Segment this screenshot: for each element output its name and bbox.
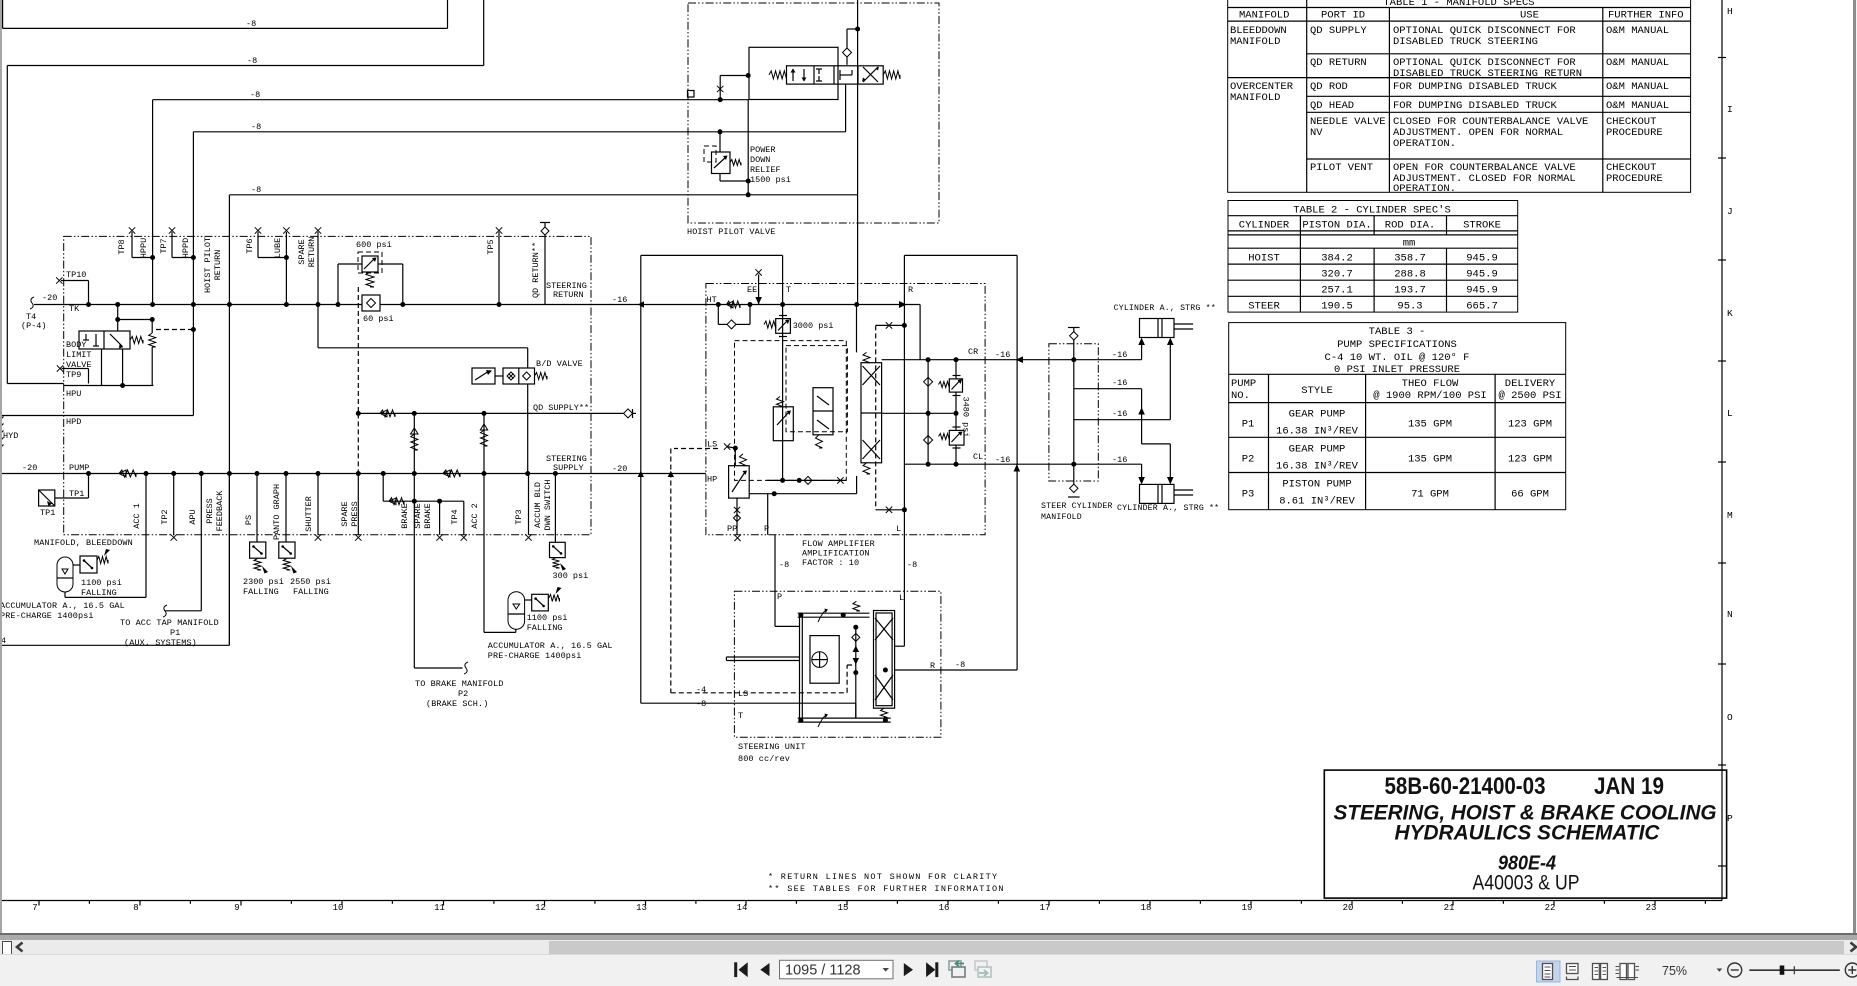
svg-text:-8: -8	[247, 56, 257, 66]
svg-text:1100 psi: 1100 psi	[81, 578, 122, 588]
net label SPARE RETURN wire	[315, 227, 321, 233]
svg-text:QD ROD: QD ROD	[1310, 81, 1348, 93]
svg-text:1100 psi: 1100 psi	[527, 613, 568, 623]
svg-text:193.7: 193.7	[1394, 285, 1426, 297]
svg-text:TO ACC TAP MANIFOLD: TO ACC TAP MANIFOLD	[120, 618, 219, 628]
svg-text:SUPPLY: SUPPLY	[553, 463, 584, 473]
svg-text:PUMP: PUMP	[69, 463, 89, 473]
svg-text:1095 / 1128: 1095 / 1128	[785, 962, 861, 978]
svg-text:66 GPM: 66 GPM	[1511, 489, 1549, 501]
pressure switch on accumulator A2	[525, 599, 532, 601]
svg-text:R: R	[930, 661, 935, 671]
svg-text:P3: P3	[1242, 489, 1255, 501]
svg-text:TP10: TP10	[66, 270, 86, 280]
svg-text:PILOT VENT: PILOT VENT	[1310, 162, 1373, 174]
svg-text:TABLE 1 - MANIFOLD SPECS: TABLE 1 - MANIFOLD SPECS	[1383, 0, 1534, 9]
svg-text:R: R	[908, 285, 913, 295]
steering unit pressure bus top	[798, 612, 870, 614]
wire TK steering return -16	[30, 297, 34, 309]
wire QD SUPPLY	[356, 411, 361, 416]
svg-text:8.61 IN³/REV: 8.61 IN³/REV	[1279, 496, 1355, 508]
svg-text:HPD: HPD	[66, 417, 81, 427]
svg-text:12: 12	[535, 903, 546, 913]
wire B/D valve down	[527, 384, 529, 474]
svg-text:15: 15	[838, 903, 849, 913]
svg-text:0 PSI INLET PRESSURE: 0 PSI INLET PRESSURE	[1334, 364, 1460, 376]
svg-text:58B-60-21400-03: 58B-60-21400-03	[1385, 773, 1546, 800]
svg-text:1500 psi: 1500 psi	[750, 175, 791, 185]
svg-text:95.3: 95.3	[1397, 301, 1422, 313]
wire accumulator A1 to ACC1	[64, 592, 66, 597]
steering LS internals	[855, 627, 857, 718]
svg-text:QD SUPPLY: QD SUPPLY	[1310, 25, 1367, 37]
svg-text:QD SUPPLY**: QD SUPPLY**	[533, 403, 589, 413]
svg-text:SPARE: SPARE	[340, 501, 350, 527]
wire T bus connection	[855, 703, 857, 718]
svg-text:MANIFOLD: MANIFOLD	[1230, 36, 1280, 48]
check valves between CR and CL	[927, 360, 929, 465]
svg-text:358.7: 358.7	[1394, 253, 1426, 265]
svg-text:-16: -16	[1112, 378, 1127, 388]
accumulator A2	[508, 592, 525, 630]
wire T into flow amplifier	[782, 255, 784, 480]
svg-text:OPERATION.: OPERATION.	[1393, 138, 1456, 150]
svg-text:TP5: TP5	[486, 239, 496, 254]
wire manifold port3	[1074, 419, 1171, 421]
svg-text:71 GPM: 71 GPM	[1411, 489, 1449, 501]
svg-text:FALLING: FALLING	[81, 588, 117, 598]
svg-text:STROKE: STROKE	[1463, 220, 1501, 232]
wire -8 HPPU pilot line	[153, 99, 749, 101]
svg-text:DWN SWITCH: DWN SWITCH	[543, 479, 553, 530]
svg-text:EE: EE	[747, 285, 757, 295]
svg-text:-16: -16	[1112, 409, 1127, 419]
toolbar previous page button	[760, 963, 769, 976]
svg-text:CYLINDER A., STRG **: CYLINDER A., STRG **	[1114, 303, 1216, 313]
svg-text:GEAR PUMP: GEAR PUMP	[1289, 443, 1346, 455]
svg-text:-8: -8	[696, 699, 706, 709]
svg-text:A40003 & UP: A40003 & UP	[1473, 872, 1580, 895]
svg-text:TABLE 2 - CYLINDER SPEC'S: TABLE 2 - CYLINDER SPEC'S	[1293, 205, 1451, 217]
test point TP7	[169, 227, 175, 233]
svg-text:MANIFOLD: MANIFOLD	[1041, 513, 1082, 522]
svg-text:LS: LS	[707, 439, 717, 449]
svg-text:75%: 75%	[1662, 964, 1687, 978]
wire PRESS FEEDBACK / line 4 out	[228, 474, 230, 646]
svg-text:257.1: 257.1	[1321, 285, 1353, 297]
svg-text:HP: HP	[707, 475, 717, 485]
test point TP4 wire	[463, 501, 465, 535]
svg-text:H: H	[1727, 6, 1733, 17]
svg-text:945.9: 945.9	[1466, 285, 1498, 297]
svg-text:SHUTTER: SHUTTER	[304, 496, 314, 532]
manifold bleeddown enclosure (dash-dot)	[64, 236, 591, 534]
svg-text:I: I	[1727, 104, 1733, 115]
svg-text:PROCEDURE: PROCEDURE	[1606, 173, 1663, 185]
svg-text:300 psi: 300 psi	[553, 571, 589, 581]
relief valve 3480 psi upper	[949, 379, 962, 392]
steering column shaft	[726, 656, 799, 658]
svg-text:RETURN: RETURN	[213, 250, 223, 281]
wire -8 return line 2	[7, 65, 483, 67]
toolbar zoom out button	[1728, 963, 1742, 977]
svg-text:K: K	[1727, 308, 1733, 319]
svg-text:O&M MANUAL: O&M MANUAL	[1606, 81, 1669, 93]
svg-text:LUBE: LUBE	[273, 238, 283, 258]
svg-text:-16: -16	[612, 295, 627, 305]
wire ACC 2	[483, 474, 485, 633]
svg-text:288.8: 288.8	[1394, 269, 1426, 281]
steering gerotor	[810, 636, 839, 684]
svg-text:CR: CR	[968, 347, 978, 357]
svg-text:DISABLED TRUCK STEERING RETURN: DISABLED TRUCK STEERING RETURN	[1393, 68, 1582, 80]
port QD SUPPLY quick disconnect	[624, 409, 633, 418]
svg-text:LS: LS	[738, 689, 748, 699]
svg-text:7: 7	[32, 903, 37, 913]
svg-text:10: 10	[333, 903, 344, 913]
svg-text:BODY: BODY	[66, 340, 86, 350]
node on pilot line 3	[719, 76, 721, 100]
svg-text:ACCUM BLD: ACCUM BLD	[533, 482, 543, 528]
pressure switch PS	[256, 474, 258, 543]
wire SPARE BRAKE	[439, 501, 441, 535]
svg-text:N: N	[1727, 609, 1733, 620]
svg-text:PRESS: PRESS	[205, 498, 215, 524]
svg-text:TO BRAKE MANIFOLD: TO BRAKE MANIFOLD	[415, 679, 503, 689]
page bottom border and canvas strip	[0, 933, 1857, 935]
svg-text:11: 11	[434, 903, 445, 913]
svg-text:HYD: HYD	[3, 431, 18, 441]
svg-text:TP7: TP7	[159, 238, 169, 253]
orifice on pump line right	[443, 470, 460, 477]
spring left of hoist pilot spool	[769, 71, 787, 79]
svg-text:320.7: 320.7	[1321, 269, 1353, 281]
svg-text:8: 8	[133, 903, 138, 913]
svg-text:RELIEF: RELIEF	[750, 165, 781, 175]
test point TP10	[56, 277, 62, 283]
wire spare press (dashed)	[357, 287, 359, 413]
wire SHUTTER	[317, 474, 319, 535]
pilot valve A	[773, 407, 793, 441]
spring right of body limit valve	[130, 337, 143, 344]
wire spare return to B/D valve	[318, 347, 528, 349]
body limit valve	[79, 331, 130, 349]
svg-text:PORT ID: PORT ID	[1321, 10, 1365, 22]
pressure switch PANTO GRAPH	[285, 474, 287, 543]
svg-text:TP9: TP9	[66, 370, 81, 380]
svg-text:POWER: POWER	[750, 145, 776, 155]
wire pilot dashed to HPPD	[156, 329, 193, 331]
wire R out of steering unit	[894, 669, 896, 671]
svg-text:O: O	[1727, 712, 1733, 723]
svg-text:20: 20	[1343, 903, 1354, 913]
svg-text:TP1: TP1	[69, 489, 84, 499]
svg-text:22: 22	[1545, 903, 1556, 913]
inner dashed enclosure 2	[786, 346, 847, 432]
svg-text:HPU: HPU	[66, 389, 81, 399]
svg-text:14: 14	[737, 903, 748, 913]
svg-text:-16: -16	[995, 455, 1010, 465]
table 2 cylinder specs	[1228, 201, 1518, 313]
svg-text:APU: APU	[188, 509, 198, 524]
svg-text:THEO FLOW: THEO FLOW	[1402, 378, 1459, 390]
ruler numbers and ticks	[38, 901, 40, 906]
toolbar next view icon (disabled)	[975, 961, 987, 970]
svg-text:NV: NV	[1310, 127, 1323, 139]
manifold internal riser	[1073, 340, 1075, 484]
svg-text:3480 psi: 3480 psi	[961, 397, 971, 438]
svg-text:-8: -8	[251, 122, 261, 132]
power down relief valve	[712, 152, 731, 174]
wire manifold port4 to cylinder	[1141, 464, 1143, 482]
svg-text:T: T	[738, 711, 743, 721]
steering unit return bus bottom	[798, 717, 891, 719]
wire L to steering unit	[895, 645, 905, 647]
check valve above hoist pilot spool	[846, 57, 848, 65]
svg-text:PISTON DIA.: PISTON DIA.	[1302, 220, 1371, 232]
accumulator A1	[57, 557, 73, 592]
svg-text:23: 23	[1646, 903, 1657, 913]
svg-text:HT: HT	[707, 295, 717, 305]
table 1 manifold specs	[1228, 0, 1691, 192]
toolbar	[0, 954, 1857, 986]
svg-text:-8: -8	[250, 90, 260, 100]
svg-text:PRESS: PRESS	[350, 501, 360, 527]
svg-text:PANTO GRAPH: PANTO GRAPH	[272, 484, 282, 540]
svg-text:800 cc/rev: 800 cc/rev	[738, 754, 790, 764]
test point TP8	[129, 227, 135, 233]
svg-text:P: P	[764, 524, 769, 534]
svg-text:TABLE 3 -: TABLE 3 -	[1369, 326, 1426, 338]
svg-text:P1: P1	[1242, 419, 1255, 431]
steering cylinder lower	[1140, 484, 1175, 503]
wire PUMP steering supply -20	[0, 473, 706, 475]
toolbar next page button	[904, 963, 913, 976]
B/D valve body	[503, 368, 535, 384]
orifice on pump line	[119, 470, 136, 477]
svg-text:PUMP: PUMP	[1231, 378, 1256, 390]
svg-text:600 psi: 600 psi	[356, 240, 392, 250]
svg-text:MANIFOLD: MANIFOLD	[1230, 92, 1280, 104]
svg-text:NO.: NO.	[1231, 390, 1250, 402]
drawing border right	[1721, 0, 1723, 901]
svg-text:** SEE TABLES FOR FURTHER INFO: ** SEE TABLES FOR FURTHER INFORMATION	[768, 884, 1005, 894]
svg-text:P2: P2	[458, 689, 468, 699]
svg-text:PRE-CHARGE 1400psi: PRE-CHARGE 1400psi	[0, 611, 94, 621]
svg-text:BRAKE: BRAKE	[423, 503, 433, 529]
accum bld dwn switch	[554, 474, 556, 543]
wire -8 HPPD pilot line	[193, 131, 845, 133]
test point TP2 wire	[173, 474, 175, 535]
pilot valve B	[813, 388, 833, 435]
svg-text:-8: -8	[907, 560, 917, 570]
svg-text:PRE-CHARGE 1400psi: PRE-CHARGE 1400psi	[488, 651, 582, 661]
wire T to main spool	[856, 305, 858, 353]
test point TP3 wire	[528, 474, 530, 535]
svg-text:FOR DUMPING DISABLED TRUCK: FOR DUMPING DISABLED TRUCK	[1393, 81, 1558, 93]
svg-text:GEAR PUMP: GEAR PUMP	[1289, 409, 1346, 421]
svg-text:STEER CYLINDER: STEER CYLINDER	[1041, 502, 1113, 511]
svg-text:MANIFOLD, BLEEDDOWN: MANIFOLD, BLEEDDOWN	[34, 538, 133, 548]
svg-text:J: J	[1727, 206, 1733, 217]
svg-text:O&M MANUAL: O&M MANUAL	[1606, 25, 1669, 37]
spring right of hoist pilot spool	[883, 71, 900, 79]
wire APU	[200, 474, 202, 611]
svg-text:21: 21	[1444, 903, 1455, 913]
check valve loop under HT	[717, 305, 719, 325]
svg-text:-4: -4	[696, 685, 706, 695]
wire P to steering unit	[774, 535, 776, 627]
port EE	[755, 269, 761, 275]
wire manifold port2	[1074, 388, 1142, 390]
svg-text:SPARE: SPARE	[413, 503, 423, 529]
svg-text:-8: -8	[779, 560, 789, 570]
hoist pilot valve enclosure (dashed)	[688, 3, 939, 223]
svg-text:SPARE: SPARE	[297, 239, 307, 265]
svg-text:STYLE: STYLE	[1301, 385, 1333, 397]
svg-text:13: 13	[636, 903, 647, 913]
svg-text:@ 1900 RPM/100 PSI: @ 1900 RPM/100 PSI	[1373, 390, 1486, 402]
net label LUBE wire	[283, 227, 289, 233]
svg-text:FALLING: FALLING	[243, 587, 279, 597]
test point TP5	[496, 227, 502, 233]
pilot stub bottom	[886, 507, 892, 513]
svg-text:135 GPM: 135 GPM	[1408, 419, 1452, 431]
svg-text:9: 9	[234, 903, 239, 913]
svg-text:-16: -16	[995, 350, 1010, 360]
toolbar page layout icons	[1537, 961, 1561, 982]
svg-text:TK: TK	[69, 304, 80, 314]
wire CL	[904, 463, 1141, 465]
svg-text:P: P	[777, 592, 782, 602]
svg-text:QD RETURN**: QD RETURN**	[531, 242, 541, 298]
wire HPU	[7, 383, 63, 385]
wire HPD	[0, 415, 193, 417]
svg-text:STEERING UNIT: STEERING UNIT	[738, 742, 806, 752]
svg-text:-16: -16	[1112, 455, 1127, 465]
svg-text:ROD DIA.: ROD DIA.	[1385, 220, 1435, 232]
svg-text:RETURN: RETURN	[307, 237, 317, 268]
wire -8 hoist pilot return line	[229, 194, 857, 196]
svg-text:PS: PS	[244, 515, 254, 525]
svg-text:665.7: 665.7	[1466, 301, 1498, 313]
svg-text:3000 psi: 3000 psi	[793, 321, 834, 331]
svg-text:USE: USE	[1520, 10, 1539, 22]
svg-text:mm: mm	[1403, 238, 1416, 250]
toolbar page number box	[780, 960, 894, 979]
steer cylinder manifold enclosure (dash-dot)	[1049, 344, 1098, 481]
svg-text:CYLINDER A., STRG **: CYLINDER A., STRG **	[1117, 503, 1219, 513]
svg-text:190.5: 190.5	[1321, 301, 1353, 313]
svg-text:-16: -16	[1112, 350, 1127, 360]
svg-text:TP2: TP2	[160, 509, 170, 524]
svg-text:TP4: TP4	[450, 509, 460, 524]
port marker on hoist pilot valve	[688, 91, 695, 98]
toolbar first page button	[734, 962, 737, 977]
svg-text:ACC 1: ACC 1	[132, 503, 142, 529]
horizontal scrollbar	[0, 940, 1857, 954]
svg-text:123 GPM: 123 GPM	[1508, 419, 1552, 431]
wire R through flow amplifier	[903, 255, 905, 646]
wire LS dashed	[674, 448, 718, 450]
svg-text:(P-4): (P-4)	[21, 321, 47, 331]
svg-text:P1: P1	[170, 628, 180, 638]
svg-text:TP6: TP6	[245, 238, 255, 253]
svg-text:FALLING: FALLING	[293, 587, 329, 597]
node junction top	[855, 27, 860, 32]
B/D valve solenoid	[472, 368, 495, 384]
steering unit enclosure (dash-dot)	[734, 591, 941, 737]
svg-text:-8: -8	[246, 19, 256, 29]
check valve 60 psi	[362, 295, 380, 311]
svg-text:16.38 IN³/REV: 16.38 IN³/REV	[1276, 460, 1359, 472]
inner dashed enclosure pilot section	[735, 341, 847, 481]
svg-text:QD RETURN: QD RETURN	[1310, 57, 1367, 69]
svg-text:L: L	[899, 593, 904, 603]
svg-text:T: T	[786, 285, 791, 295]
table 3 pump specifications	[1229, 323, 1566, 510]
wire TK to body limit valve	[117, 305, 119, 332]
steering control valve	[874, 611, 895, 709]
svg-text:PP: PP	[727, 524, 737, 534]
toolbar zoom in button	[1845, 963, 1857, 977]
svg-text:LIMIT: LIMIT	[66, 350, 92, 360]
svg-text:OPERATION.: OPERATION.	[1393, 183, 1456, 195]
wire top vertical to page edge	[857, 0, 859, 305]
svg-text:16.38 IN³/REV: 16.38 IN³/REV	[1276, 426, 1359, 438]
svg-text:16: 16	[939, 903, 950, 913]
relief valve 3000 psi	[776, 319, 791, 334]
test point TP1 gauge	[39, 490, 55, 506]
test point TP6	[255, 227, 261, 233]
toolbar last page button	[926, 962, 935, 977]
svg-text:TP3: TP3	[514, 509, 524, 524]
svg-text:-20: -20	[42, 293, 57, 303]
svg-text:PUMP SPECIFICATIONS: PUMP SPECIFICATIONS	[1337, 339, 1457, 351]
svg-text:-20: -20	[22, 463, 37, 473]
spring right of B/D valve	[535, 373, 548, 380]
title block	[1324, 770, 1726, 898]
svg-text:17: 17	[1040, 903, 1051, 913]
svg-text:2300 psi: 2300 psi	[243, 577, 284, 587]
hoist pilot valve inner box	[749, 47, 838, 99]
wire BRAKE to brake manifold	[413, 474, 415, 669]
svg-text:PISTON PUMP: PISTON PUMP	[1282, 479, 1351, 491]
svg-text:AMPLIFICATION: AMPLIFICATION	[802, 549, 870, 559]
wire TK stub to main spool	[904, 304, 920, 306]
wire body limit valve pilot	[118, 319, 153, 321]
wire -8 return line 1	[2, 0, 4, 28]
svg-text:B/D VALVE: B/D VALVE	[536, 359, 583, 369]
pdf viewer canvas edges	[0, 0, 2, 933]
svg-text:L: L	[896, 524, 901, 534]
wire brake branch	[382, 474, 384, 502]
svg-text:FOR DUMPING DISABLED TRUCK: FOR DUMPING DISABLED TRUCK	[1393, 100, 1558, 112]
svg-text:HPPU: HPPU	[139, 238, 149, 258]
svg-text:* RETURN LINES NOT SHOWN FOR C: * RETURN LINES NOT SHOWN FOR CLARITY	[768, 872, 998, 882]
svg-text:PROCEDURE: PROCEDURE	[1606, 127, 1663, 139]
svg-text:M: M	[1727, 510, 1733, 521]
svg-text:ACC 2: ACC 2	[470, 503, 480, 529]
orifice HT on TK line	[727, 301, 741, 308]
relief valve 3480 psi lower	[949, 430, 964, 445]
svg-text:CL: CL	[973, 452, 983, 462]
svg-text:HYDRAULICS SCHEMATIC: HYDRAULICS SCHEMATIC	[1395, 821, 1660, 845]
toolbar zoom slider	[1749, 969, 1840, 971]
svg-text:FEEDBACK: FEEDBACK	[215, 490, 225, 532]
svg-text:HOIST: HOIST	[1248, 253, 1280, 265]
wire CR	[882, 359, 921, 361]
